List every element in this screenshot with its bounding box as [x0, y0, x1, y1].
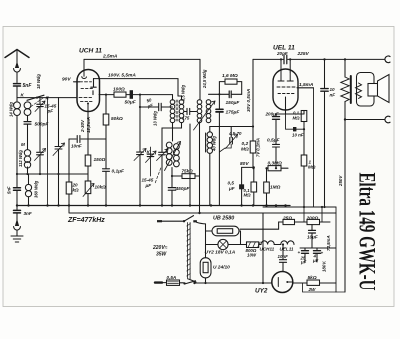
tube UEL11 — [273, 69, 298, 110]
capacitor 5nF (bottom left) — [14, 188, 21, 206]
resistor 1MOhm — [264, 167, 270, 205]
svg-text:2,5mA: 2,5mA — [102, 54, 118, 60]
svg-text:UEL11: UEL11 — [280, 247, 294, 252]
svg-text:10kΩ: 10kΩ — [95, 185, 107, 190]
B+ line 250V — [344, 120, 346, 293]
tuned winding 18 Wdg — [24, 102, 31, 121]
svg-text:5nF: 5nF — [23, 83, 33, 89]
resistor 0,1MOhm (cathode) — [301, 111, 307, 156]
wire mains to ballast — [197, 222, 206, 257]
svg-text:MΩ: MΩ — [241, 147, 249, 153]
mains plug — [155, 281, 167, 283]
svg-text:2-30V: 2-30V — [80, 119, 85, 133]
svg-text:30V 0,5mA: 30V 0,5mA — [246, 89, 251, 112]
svg-text:10: 10 — [330, 87, 336, 92]
coupling cap 0,5uF block + 0,1MOhm resistor — [242, 166, 257, 205]
IF transformer 1 core — [176, 100, 178, 121]
wire top rail turn-down — [199, 59, 201, 99]
svg-text:24,5 Wdg: 24,5 Wdg — [202, 69, 207, 89]
resistor 150 Ohm — [85, 155, 91, 181]
trimmer K (padder mid) — [146, 147, 157, 176]
wire 100V screen line — [94, 79, 179, 96]
svg-text:+: + — [321, 251, 324, 256]
svg-text:80V: 80V — [240, 161, 249, 167]
transformer core — [350, 76, 352, 103]
tube UCH11 — [74, 59, 100, 111]
capacitor 4uF electrolytic — [314, 248, 321, 262]
svg-text:14 Wdg: 14 Wdg — [9, 102, 14, 117]
svg-text:kΩ: kΩ — [73, 188, 80, 193]
svg-text:MΩ: MΩ — [244, 193, 252, 198]
heater UEL11 — [274, 241, 294, 245]
svg-text:UCH 11: UCH 11 — [79, 48, 102, 55]
capacitor 150uF (series) — [229, 91, 231, 98]
svg-text:MΩ: MΩ — [308, 165, 316, 170]
oscillator tuned coil (K) — [165, 123, 181, 188]
capacitor 0,1uF — [103, 169, 110, 206]
svg-text:UB 2580: UB 2580 — [213, 216, 234, 222]
node grid row — [252, 167, 277, 169]
wire x190 — [189, 124, 191, 206]
svg-text:+: + — [298, 250, 301, 255]
mains switch upper — [157, 216, 197, 223]
power supply: smoothing top rail — [263, 206, 336, 208]
node detector — [218, 93, 220, 95]
mains cable hatched — [187, 223, 196, 283]
svg-text:10nF: 10nF — [71, 144, 82, 149]
svg-text:1MΩ: 1MΩ — [270, 185, 281, 191]
svg-text:35W: 35W — [156, 252, 168, 258]
band switch K — [17, 95, 77, 205]
svg-text:7V 0,1mA: 7V 0,1mA — [256, 138, 261, 157]
svg-text:112 Wdg: 112 Wdg — [18, 150, 23, 167]
IF transformer 2 secondary — [206, 100, 211, 123]
resistor 5kOhm 2W — [295, 280, 336, 285]
scale lamp U24/10 — [200, 258, 211, 284]
resistor 100 Ohm — [114, 92, 126, 97]
capacitor 0,5uF (coupling) — [239, 184, 244, 189]
svg-text:15-45: 15-45 — [142, 178, 154, 183]
variable capacitor (tuning, osc) — [134, 149, 146, 206]
trimmer (osc padder) — [157, 149, 169, 206]
connector hook lower right — [385, 116, 390, 123]
mains switch lower — [183, 281, 195, 285]
wire mixer anode row — [99, 94, 173, 96]
svg-text:90V: 90V — [62, 77, 71, 83]
wire anode top rail 2,5mA — [84, 58, 200, 60]
resistor 800 Ohm 10W — [240, 242, 261, 248]
tube UY2 rectifier — [272, 272, 293, 293]
wire antenna down-lead — [16, 119, 18, 187]
svg-text:40 Wdg: 40 Wdg — [212, 136, 217, 152]
svg-text:10nF: 10nF — [278, 254, 289, 259]
capacitor 50pF — [139, 103, 173, 110]
svg-text:0,1μF: 0,1μF — [112, 169, 126, 175]
capacitor 50uF — [130, 90, 133, 99]
svg-text:50μF: 50μF — [125, 100, 137, 106]
capacitor 10nF (tone) — [321, 59, 328, 207]
resistor 1MOhm (bleeder) — [301, 155, 307, 207]
cathode bypass 10nF row — [286, 110, 306, 131]
wire grid2 row y139 — [69, 138, 106, 140]
svg-text:MΩ: MΩ — [293, 116, 301, 121]
ballast UB2580 — [206, 226, 241, 244]
coil 360 Wdg — [25, 174, 31, 206]
svg-text:20pF: 20pF — [276, 51, 288, 56]
wire IF1 secondary bottom — [162, 123, 182, 152]
resistor 1,6MOhm — [219, 79, 241, 94]
svg-text:pF: pF — [47, 109, 54, 114]
coil 112 Wdg — [24, 150, 30, 174]
dial lamp — [206, 239, 241, 249]
IF transformer 1 secondary — [178, 96, 184, 123]
svg-text:360 Wdg: 360 Wdg — [34, 180, 39, 198]
svg-text:1,5mA: 1,5mA — [299, 82, 314, 88]
resistor 0,3MOhm — [267, 166, 289, 171]
capacitor 20pF — [284, 55, 287, 64]
svg-text:UY2 18V 0,1A: UY2 18V 0,1A — [205, 250, 236, 256]
ground — [11, 236, 23, 242]
svg-text:5nF: 5nF — [7, 186, 12, 194]
capacitor 175pF (IF1) — [184, 108, 197, 114]
wire UEL screen feed 1,5mA — [313, 88, 315, 207]
svg-text:1,6 MΩ: 1,6 MΩ — [222, 73, 238, 79]
svg-text:180V.: 180V. — [322, 261, 327, 272]
capacitor 3nF — [14, 210, 21, 220]
wire UEL11 anode leads — [281, 59, 290, 72]
svg-text:100V. 5,5mA: 100V. 5,5mA — [108, 73, 136, 79]
svg-text:4,5-70: 4,5-70 — [228, 131, 242, 136]
svg-text:150μF: 150μF — [226, 100, 241, 106]
svg-text:5kΩ: 5kΩ — [308, 275, 317, 281]
resistor 0,2MOhm — [250, 127, 256, 168]
capacitor 10nF (heater) — [280, 243, 287, 271]
capacitor 450pF — [168, 188, 175, 206]
resistor 200 Ohm — [307, 219, 330, 224]
svg-text:0,5A: 0,5A — [167, 275, 177, 280]
svg-text:3nF: 3nF — [24, 211, 32, 216]
svg-text:10 nF: 10 nF — [292, 133, 304, 138]
svg-text:0,5μF: 0,5μF — [267, 138, 281, 144]
svg-text:U 24/10: U 24/10 — [213, 265, 230, 271]
capacitor 500pF — [24, 122, 31, 150]
wire tuned circuit column — [27, 119, 29, 121]
vertical feed x252 (30V 0,5mA) — [252, 59, 254, 126]
resistor 75kOhm — [171, 174, 200, 179]
top rail right section — [253, 58, 385, 60]
output transformer primary — [341, 59, 349, 119]
bottom return rail — [303, 283, 346, 292]
capacitor 0,5uF (cathode) — [273, 144, 280, 168]
svg-text:150Ω: 150Ω — [94, 157, 106, 163]
svg-text:175: 175 — [182, 116, 190, 121]
wire detector row — [209, 93, 242, 95]
svg-text:0,2: 0,2 — [242, 141, 249, 147]
wire UEL screen/grid right — [297, 87, 314, 89]
svg-text:50kΩ: 50kΩ — [111, 116, 123, 122]
variable capacitor (tuning, antenna) — [53, 98, 65, 206]
oscillator coil 40 Wdg — [206, 127, 213, 206]
svg-text:450pF: 450pF — [175, 186, 191, 192]
capacitor 10uF — [309, 225, 316, 248]
node dots top rail — [280, 58, 346, 121]
speaker — [357, 73, 390, 107]
wire horizontal AVC row left — [17, 173, 88, 175]
IF transformer 2 primary — [197, 100, 202, 215]
wire oscillator feed branch — [210, 126, 253, 128]
svg-text:UCH11: UCH11 — [260, 247, 275, 252]
svg-text:13 Wdg: 13 Wdg — [153, 111, 158, 126]
wire speaker bottom rail — [345, 119, 385, 121]
svg-text:74,5mA: 74,5mA — [326, 235, 331, 251]
capacitor 25uF electrolytic — [302, 248, 309, 262]
wire bus2 to rectifier — [262, 213, 264, 283]
capacitor 10nF (AVC) — [77, 136, 80, 143]
chassis bus 2 — [69, 206, 336, 214]
svg-text:10W: 10W — [247, 253, 257, 258]
svg-text:220V≈: 220V≈ — [152, 245, 168, 251]
wire rectifier row — [195, 282, 308, 284]
svg-text:ZF=477kHz: ZF=477kHz — [67, 217, 105, 224]
svg-text:nF: nF — [330, 93, 336, 98]
svg-text:M: M — [21, 142, 25, 147]
resistor 25 Ohm — [240, 207, 322, 229]
svg-text:μF: μF — [228, 186, 235, 191]
svg-text:μF: μF — [300, 260, 307, 265]
svg-text:100Ω: 100Ω — [113, 87, 125, 93]
wire vertical x69 — [68, 139, 70, 182]
trimmer 15-45pF — [35, 98, 46, 174]
wire oscillator varcap column — [139, 95, 141, 152]
antenna coupling coil 14 Wdg — [14, 102, 21, 119]
svg-text:μF: μF — [312, 258, 319, 263]
svg-text:5,5 Wdg: 5,5 Wdg — [181, 85, 186, 101]
potentiometer 10kOhm — [83, 181, 94, 206]
wire UEL cathode split — [276, 110, 304, 116]
resistor 50kOhm — [103, 95, 109, 169]
svg-text:225V: 225V — [297, 51, 310, 57]
svg-text:UY2: UY2 — [255, 288, 268, 295]
node dots row174 — [16, 173, 60, 175]
capacitor 175uF (shunt) — [216, 94, 223, 205]
wire chassis stub below bus — [16, 206, 18, 210]
resistor 20kOhm — [66, 182, 72, 206]
svg-text:0,5: 0,5 — [228, 181, 235, 186]
svg-text:200Ω: 200Ω — [306, 216, 319, 222]
svg-text:0,3MΩ: 0,3MΩ — [268, 161, 283, 167]
svg-text:500pF: 500pF — [35, 122, 50, 128]
smoothing node rail — [300, 207, 336, 292]
svg-text:2W: 2W — [308, 287, 317, 292]
node dots anode row — [105, 94, 141, 96]
capacitor 200uF — [273, 117, 280, 144]
trimmer 4,5-70 — [219, 127, 237, 153]
heater UCH11 — [261, 241, 274, 245]
svg-text:Eltra 149 GWK-U: Eltra 149 GWK-U — [354, 173, 380, 291]
gang link dashed — [155, 168, 161, 184]
svg-text:175μF: 175μF — [226, 110, 241, 116]
svg-text:200μF: 200μF — [265, 112, 279, 117]
fuse 0,5A — [167, 280, 184, 285]
connector (earth plug) — [14, 221, 21, 236]
svg-text:10μF: 10μF — [307, 235, 318, 240]
svg-text:250V: 250V — [338, 175, 343, 187]
antenna — [5, 50, 29, 83]
main bus — [17, 205, 290, 207]
variable core arrow IF2 — [194, 101, 216, 130]
svg-text:25Ω: 25Ω — [282, 216, 292, 222]
bus node dots — [16, 204, 287, 206]
svg-text:18 Wdg: 18 Wdg — [36, 74, 41, 89]
connector hook top right — [385, 56, 390, 63]
IF transformer 1 primary — [170, 95, 175, 123]
capacitor 5nF (antenna series) — [14, 84, 21, 101]
output transformer secondary — [356, 83, 362, 98]
svg-text:12,2mA: 12,2mA — [86, 117, 91, 133]
svg-text:75kΩ: 75kΩ — [182, 169, 194, 174]
wire cathode UCH11 — [87, 112, 89, 156]
svg-text:μF: μF — [145, 183, 152, 188]
